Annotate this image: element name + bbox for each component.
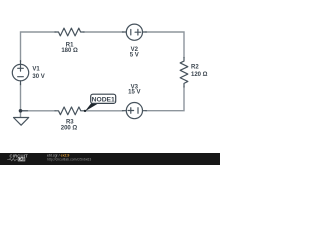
svg-text:180 Ω: 180 Ω xyxy=(61,48,78,54)
svg-text:http://circuitlab.com/c/5nbx63: http://circuitlab.com/c/5nbx63 xyxy=(47,157,91,161)
V3 minus (rotated bar) xyxy=(137,108,139,114)
wire ground stem xyxy=(20,111,22,117)
svg-text:200 Ω: 200 Ω xyxy=(61,125,78,131)
svg-text:120 Ω: 120 Ω xyxy=(191,72,208,78)
wire junction up to V1 bottom xyxy=(20,84,22,111)
junction dark stub xyxy=(21,110,28,112)
wire V2 to top-right corner down to R2 xyxy=(146,32,185,58)
wire top-left corner to R1 xyxy=(21,32,56,62)
resistor R3 xyxy=(55,107,84,115)
V2 lead stubs xyxy=(123,31,147,33)
V1 lead stubs xyxy=(20,61,22,85)
V1 minus sign xyxy=(18,76,24,78)
svg-text:NODE1: NODE1 xyxy=(92,98,116,104)
voltage source V1 xyxy=(12,64,28,80)
ground xyxy=(14,118,29,126)
V3 lead stubs xyxy=(123,110,147,112)
wire R2 to bottom-right corner to V3 xyxy=(146,87,185,111)
svg-text:30 V: 30 V xyxy=(32,74,44,80)
wire V3 to R3 xyxy=(84,110,124,112)
svg-text:R2: R2 xyxy=(191,64,199,70)
resistor R2 xyxy=(180,58,188,88)
junction dot xyxy=(19,109,23,113)
node NODE1 flag box xyxy=(91,94,116,103)
voltage source V3 xyxy=(126,103,142,119)
node NODE1 pointer wedge xyxy=(85,103,98,111)
V2 plus sign xyxy=(135,29,141,35)
V1 plus sign xyxy=(18,66,24,72)
svg-text:V1: V1 xyxy=(32,67,40,73)
svg-text:LAB: LAB xyxy=(18,158,25,162)
wire R1 to V2 xyxy=(84,31,124,33)
circuitlab logo zigzag xyxy=(7,159,17,161)
V2 minus (rotated bar) xyxy=(130,30,132,35)
circuitlab logo LAB box xyxy=(18,158,25,162)
node NODE1 tip dot xyxy=(84,110,86,112)
resistor R1 xyxy=(55,28,84,36)
svg-text:15 V: 15 V xyxy=(128,90,140,96)
watermark bar xyxy=(0,153,220,165)
V3 plus sign xyxy=(128,108,134,114)
wire R3 to junction xyxy=(21,110,56,112)
voltage source V2 xyxy=(126,24,142,40)
svg-text:5 V: 5 V xyxy=(130,52,139,58)
